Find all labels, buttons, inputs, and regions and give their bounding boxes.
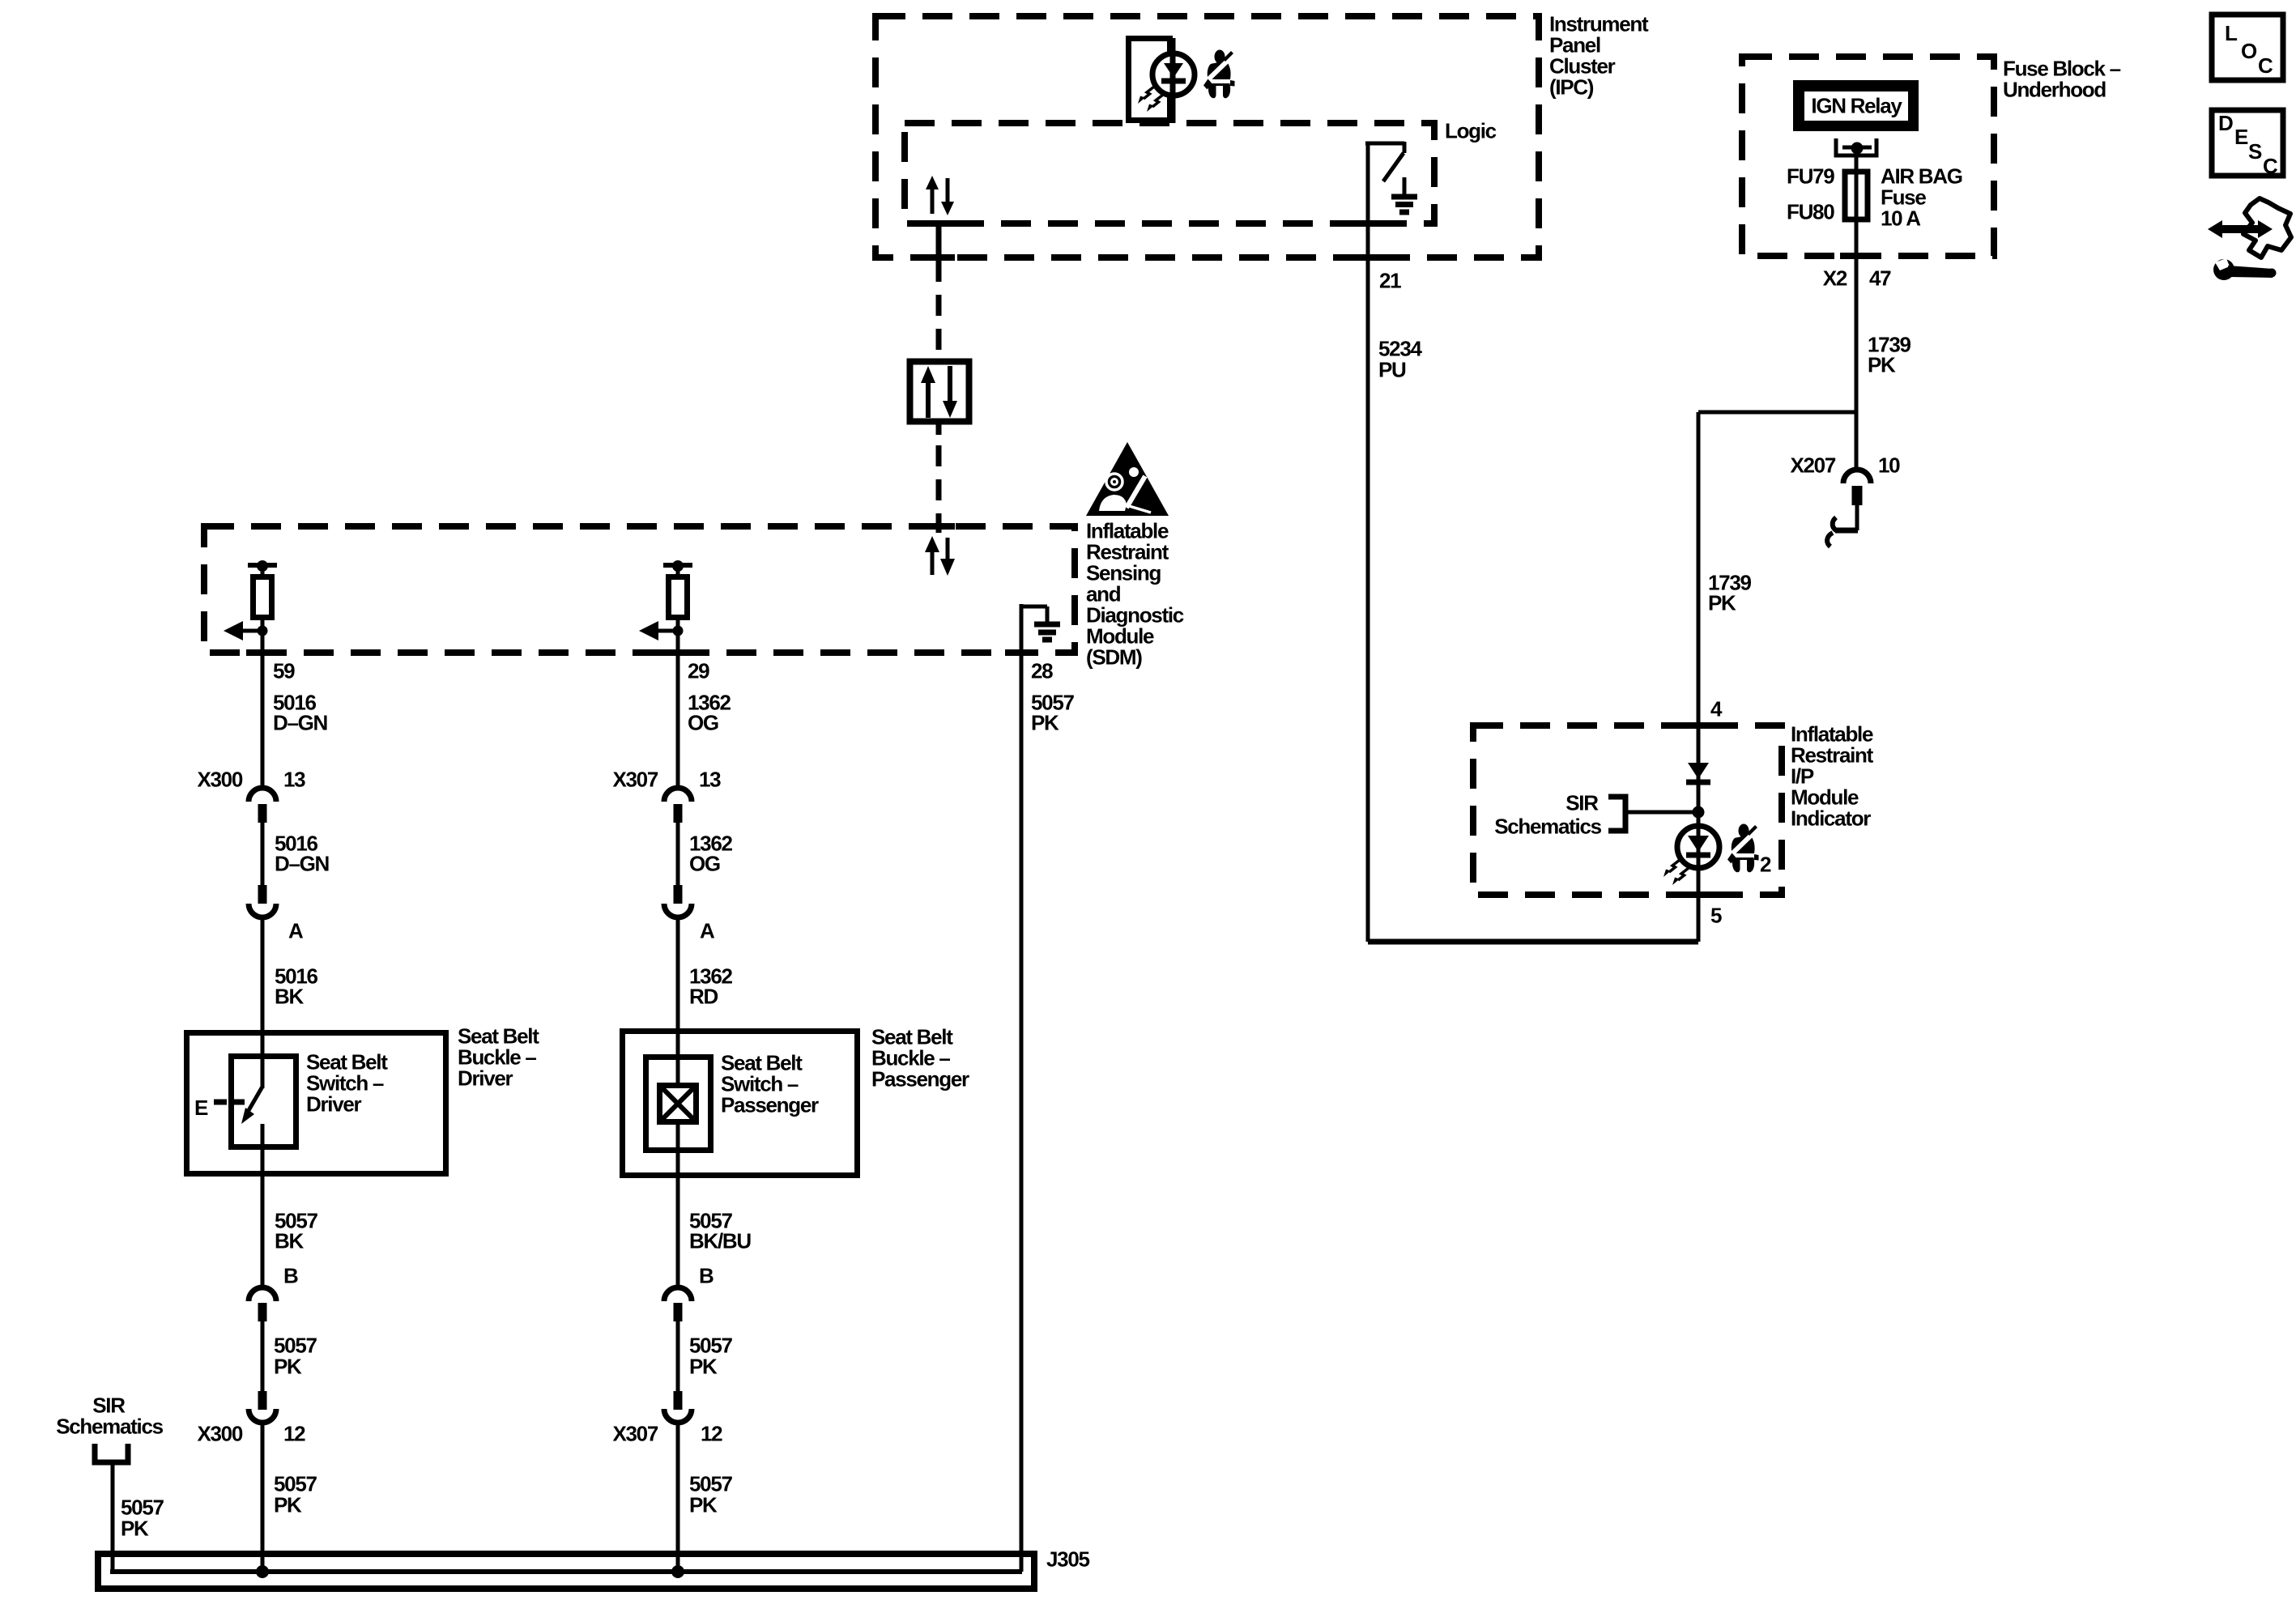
wire from bracket to bus (111, 1462, 115, 1572)
passenger sense: supply bar and node (663, 563, 692, 568)
boundary tick at SDM serial entry (922, 523, 955, 530)
driver sense: supply bar and node (248, 563, 277, 568)
IPC dashed box (875, 16, 1539, 257)
LED light arrows (1663, 860, 1689, 885)
svg-text:PK: PK (1868, 353, 1896, 377)
LED cathode bar (1161, 79, 1186, 84)
service icon: wrench (2213, 259, 2234, 280)
boundary tick at X2/47 (1840, 253, 1872, 259)
wire out of switch (676, 1121, 680, 1288)
svg-text:59: 59 (273, 659, 295, 683)
LED L1 seat belt indicator circle (1152, 53, 1195, 96)
Seat Belt Buckle - Passenger box (623, 1032, 858, 1176)
serial box up arrow (926, 377, 931, 418)
svg-text:IGN Relay: IGN Relay (1811, 94, 1902, 118)
junction dot passenger (671, 1565, 684, 1578)
wire (261, 1321, 265, 1391)
svg-text:B: B (283, 1264, 298, 1288)
ground bus conductor (110, 1569, 1022, 1574)
connector X307 pin 13 (664, 788, 692, 802)
svg-text:E: E (194, 1096, 208, 1120)
SDM internal ground (1020, 604, 1024, 1572)
svg-text:13: 13 (283, 768, 305, 792)
ground G1 in Logic box (1403, 177, 1407, 195)
wire stub through SDM boundary (936, 517, 942, 533)
svg-text:RD: RD (689, 985, 718, 1009)
svg-text:(IPC): (IPC) (1549, 75, 1594, 100)
serial data box (910, 362, 969, 422)
svg-text:J305: J305 (1046, 1547, 1089, 1572)
boundary tick at 5234 wire crossings (1352, 220, 1384, 227)
Logic dashed box (905, 123, 1434, 223)
wire (676, 1321, 680, 1391)
svg-text:L: L (2225, 21, 2238, 45)
wire relay through fuse to X2 (1855, 148, 1859, 468)
svg-text:PK: PK (1708, 591, 1736, 615)
airbag warning triangle (1086, 442, 1169, 516)
connector A (buckle) (258, 885, 267, 904)
Seat Belt Buckle - Driver box (187, 1033, 446, 1174)
junction dot (1693, 806, 1705, 819)
svg-text:S: S (2248, 139, 2262, 164)
svg-text:E: E (2234, 125, 2248, 149)
wire to ground bus (261, 1423, 265, 1572)
wire (261, 823, 265, 885)
svg-text:C: C (2263, 154, 2278, 178)
svg-text:D–GN: D–GN (275, 852, 330, 876)
SDM dashed box (204, 526, 1075, 653)
diode (1688, 763, 1709, 779)
svg-text:BK/BU: BK/BU (689, 1229, 751, 1253)
connector X300 pin 13 (249, 788, 276, 802)
wire into buckle (261, 917, 265, 1088)
svg-text:PK: PK (689, 1355, 718, 1379)
boundary tick at serial/logic crossing (922, 220, 955, 227)
connector A (buckle) (674, 885, 683, 904)
svg-text:B: B (699, 1264, 714, 1288)
closed switch box with X (660, 1086, 696, 1122)
svg-text:A: A (288, 919, 304, 943)
junction dot at relay output (1851, 143, 1864, 155)
switch blade (248, 1087, 262, 1112)
LED L2 indicator circle (1677, 826, 1719, 868)
svg-text:X300: X300 (197, 1422, 242, 1446)
fuse FU79/FU80 (1845, 172, 1868, 219)
svg-text:BK: BK (275, 1229, 304, 1253)
svg-text:FU79: FU79 (1787, 164, 1834, 189)
bracket (95, 1444, 128, 1462)
SDM serial down arrow (946, 538, 950, 563)
boundary ticks at SDM pins 59/29/28 (246, 649, 279, 656)
svg-text:PK: PK (689, 1493, 718, 1517)
dashed serial wire (936, 261, 942, 359)
svg-text:Logic: Logic (1445, 119, 1497, 143)
ground bus J305 outer rectangle (98, 1554, 1034, 1589)
connector X207 pin 10 (1843, 470, 1871, 483)
wire through LED (1170, 38, 1176, 123)
IGN Relay box (1798, 85, 1915, 127)
Seat Belt Switch - Passenger inner box (646, 1057, 711, 1151)
svg-text:12: 12 (283, 1422, 305, 1446)
resistor R2 (passenger sense) (669, 577, 688, 618)
connector X300 pin 12 (258, 1391, 267, 1410)
svg-text:Schematics: Schematics (56, 1415, 163, 1439)
svg-text:BK: BK (275, 985, 304, 1009)
svg-text:Passenger: Passenger (721, 1093, 819, 1117)
svg-text:X300: X300 (197, 768, 242, 792)
junction dot driver (256, 1565, 269, 1578)
svg-text:28: 28 (1031, 659, 1053, 683)
left arrow (driver sense output) (238, 629, 262, 633)
LED light arrows (1138, 87, 1163, 112)
svg-text:2: 2 (1760, 853, 1771, 877)
svg-text:4: 4 (1710, 697, 1723, 721)
svg-text:12: 12 (701, 1422, 722, 1446)
svg-text:X2: X2 (1823, 266, 1847, 291)
svg-text:A: A (700, 919, 715, 943)
wire out of switch (261, 1124, 265, 1288)
seat belt icon (indicator) (1727, 824, 1759, 873)
switch S1 blade (open) (1383, 153, 1404, 181)
bottom return wire to IPC (1368, 939, 1698, 945)
svg-text:Driver: Driver (458, 1066, 513, 1091)
wire to ground bus (676, 1423, 680, 1572)
serial box down arrow (948, 366, 952, 405)
svg-text:Passenger: Passenger (871, 1067, 969, 1091)
svg-text:D–GN: D–GN (273, 711, 328, 735)
svg-text:PK: PK (121, 1517, 149, 1541)
svg-text:10 A: 10 A (1881, 206, 1921, 231)
dashed serial wire below box (936, 424, 942, 435)
svg-text:X207: X207 (1790, 453, 1835, 478)
svg-text:X307: X307 (612, 1422, 658, 1446)
svg-text:PK: PK (274, 1355, 302, 1379)
wire SDM pin 29 down (676, 631, 680, 789)
Seat Belt Switch - Driver inner box (232, 1057, 296, 1147)
LOC box (2212, 15, 2283, 80)
SDM serial up arrow (931, 548, 935, 575)
svg-text:SIR: SIR (1565, 791, 1599, 815)
service icon: double-headed arrow (2219, 225, 2261, 233)
svg-text:47: 47 (1869, 266, 1891, 291)
LED diode triangle (1164, 63, 1183, 78)
ground switch S1 in Logic box (1365, 142, 1404, 146)
svg-text:(SDM): (SDM) (1086, 645, 1142, 670)
DESC box (2212, 110, 2283, 176)
svg-text:FU80: FU80 (1787, 200, 1834, 224)
boundary ticks at indicator pins 4/5 (1682, 722, 1715, 729)
fuse block dashed box (1742, 57, 1994, 256)
svg-text:Underhood: Underhood (2003, 78, 2106, 102)
wire stub through IPC boundary (936, 223, 942, 259)
wire down to indicator pin 4 (1697, 412, 1701, 942)
svg-text:PK: PK (274, 1493, 302, 1517)
IPC indicator frame rectangle (1129, 39, 1170, 121)
logic serial-data up/down arrows (931, 187, 935, 214)
resistor R1 (driver sense) (253, 577, 272, 618)
wire into buckle (676, 917, 680, 1085)
svg-text:Driver: Driver (306, 1092, 362, 1117)
service icon: outlined hand (2243, 198, 2291, 257)
svg-text:D: D (2218, 111, 2233, 135)
svg-text:Schematics: Schematics (1494, 815, 1601, 839)
svg-text:PK: PK (1031, 711, 1059, 735)
svg-text:O: O (2241, 39, 2257, 63)
svg-text:21: 21 (1379, 269, 1401, 293)
svg-text:10: 10 (1878, 453, 1900, 478)
branch wire to indicator (1698, 411, 1856, 415)
wire (676, 823, 680, 885)
svg-text:Indicator: Indicator (1791, 806, 1871, 831)
pigtail hook below X207 (1855, 505, 1859, 530)
svg-text:PU: PU (1378, 358, 1406, 382)
svg-text:29: 29 (688, 659, 709, 683)
relay output bracket (1836, 138, 1876, 155)
wire SDM pin 59 down (261, 631, 265, 789)
left arrow (passenger sense output) (654, 629, 678, 633)
Inflatable Restraint I/P Module Indicator dashed box (1473, 726, 1782, 895)
svg-text:X307: X307 (612, 768, 658, 792)
svg-text:C: C (2258, 53, 2273, 78)
svg-text:OG: OG (688, 711, 718, 735)
svg-text:5: 5 (1710, 904, 1722, 928)
seat belt icon (IPC) (1203, 50, 1235, 99)
svg-text:OG: OG (689, 852, 720, 876)
svg-text:13: 13 (699, 768, 721, 792)
wire 5234 PU (IPC pin 21 down to indicator return) (1366, 143, 1370, 942)
connector X307 pin 12 (674, 1391, 683, 1410)
